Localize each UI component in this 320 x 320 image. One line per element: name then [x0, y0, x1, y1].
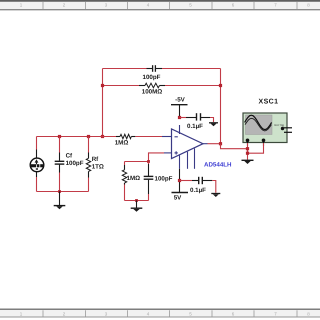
svg-text:100MΩ: 100MΩ: [142, 89, 162, 96]
wire source loop left vertical: [36, 137, 38, 192]
oscilloscope XSC1: [243, 99, 292, 147]
wire feedback right vertical: [220, 69, 222, 144]
pin V+ (top): [179, 125, 181, 134]
wire RC loop left vertical: [124, 162, 126, 201]
resistor Rf 1TOhm: [86, 153, 104, 178]
svg-text:100pF: 100pF: [143, 74, 161, 81]
svg-text:100pF: 100pF: [66, 160, 84, 167]
svg-text:5V: 5V: [174, 195, 182, 202]
output stub: [203, 143, 208, 145]
wire feedback left vertical: [102, 69, 104, 137]
resistor R3 1MOhm series: [115, 134, 136, 146]
ground (RC loop): [131, 201, 143, 212]
wire source loop bottom rail: [37, 191, 89, 193]
resistor R1 100MOhm (feedback): [139, 83, 165, 95]
junction node at feedback left / main wire: [101, 135, 104, 138]
resistor R2 1MOhm (to ground): [122, 165, 140, 185]
scope terminal A: [246, 139, 250, 143]
junction node at feedback left / 100M wire: [101, 84, 104, 87]
bottom ruler strip: [0, 309, 320, 317]
capacitor C4 0.1uF (on 5V): [190, 177, 212, 194]
top ruler strip: [0, 0, 320, 10]
junction node at Rf top: [87, 135, 90, 138]
ground (source loop): [54, 192, 66, 210]
junction node at -5V rail: [178, 116, 181, 119]
svg-text:Ext Trig: Ext Trig: [275, 123, 285, 127]
scope terminal B: [262, 139, 266, 143]
power -5V supply: [171, 97, 188, 118]
svg-text:1MΩ: 1MΩ: [115, 140, 129, 147]
ground (C3): [209, 123, 218, 127]
wire RC loop right vertical: [148, 162, 150, 201]
junction node at source rail / ground: [58, 190, 61, 193]
wire cap C3 to ground: [210, 118, 214, 123]
junction node scope A wire: [246, 147, 249, 150]
wire top feedback horizontal: [103, 68, 221, 70]
svg-text:100pF: 100pF: [155, 175, 173, 182]
svg-text:0.1µF: 0.1µF: [187, 123, 203, 130]
wire 5V decoupling: [180, 180, 193, 182]
wire cap C4 to ground: [212, 181, 216, 193]
junction node at RC loop bottom / ground: [135, 199, 138, 202]
svg-text:1MΩ: 1MΩ: [127, 175, 141, 182]
svg-text:-5V: -5V: [175, 97, 186, 104]
wire non-inverting input stub (navy): [164, 152, 172, 154]
capacitor Cf 100pF: [55, 152, 84, 172]
wire output jog to scope: [221, 144, 248, 149]
op-amp U1 AD544LH: [172, 125, 208, 169]
power 5V supply: [172, 193, 189, 202]
wire RC loop bottom: [125, 200, 149, 202]
scope side terminal: [281, 127, 284, 130]
svg-text:Cf: Cf: [66, 152, 73, 159]
wire second feedback horizontal: [103, 85, 221, 87]
current source I1: [30, 150, 44, 178]
wire scope A to ground vertical: [247, 143, 249, 160]
capacitor C2 100pF (to ground): [144, 175, 173, 182]
svg-text:AD544LH: AD544LH: [204, 162, 232, 169]
wire -5V decoupling: [180, 117, 187, 119]
wire 5V rail (bottom pin down): [179, 169, 181, 193]
svg-text:Rf: Rf: [92, 156, 99, 163]
junction node scope B wire: [246, 152, 249, 155]
junction node at RC loop top right: [147, 160, 150, 163]
junction node at Cf top: [58, 135, 61, 138]
wire main input horizontal: [37, 136, 163, 138]
wire inverting input stub (navy): [162, 136, 172, 138]
ground (C4): [211, 194, 220, 198]
svg-text:0.1µF: 0.1µF: [190, 187, 206, 194]
junction node at feedback right / 100M wire: [219, 84, 222, 87]
ground (scope): [242, 160, 254, 164]
wire scope B down and left: [248, 143, 264, 153]
junction node at output/feedback: [219, 142, 222, 145]
scope trace: [245, 115, 272, 129]
wire output: [208, 143, 221, 145]
wire non-inverting input path (red): [125, 153, 165, 162]
wire Rf branch vertical: [88, 137, 90, 192]
wire Cf branch vertical: [59, 137, 61, 192]
svg-text:XSC1: XSC1: [259, 99, 279, 106]
capacitor C3 0.1uF (on -5V): [186, 113, 210, 130]
junction node at 5V rail: [178, 179, 181, 182]
svg-text:1TΩ: 1TΩ: [92, 164, 104, 171]
pins bottom: [179, 155, 181, 169]
capacitor C1 100pF (feedback): [143, 65, 162, 81]
